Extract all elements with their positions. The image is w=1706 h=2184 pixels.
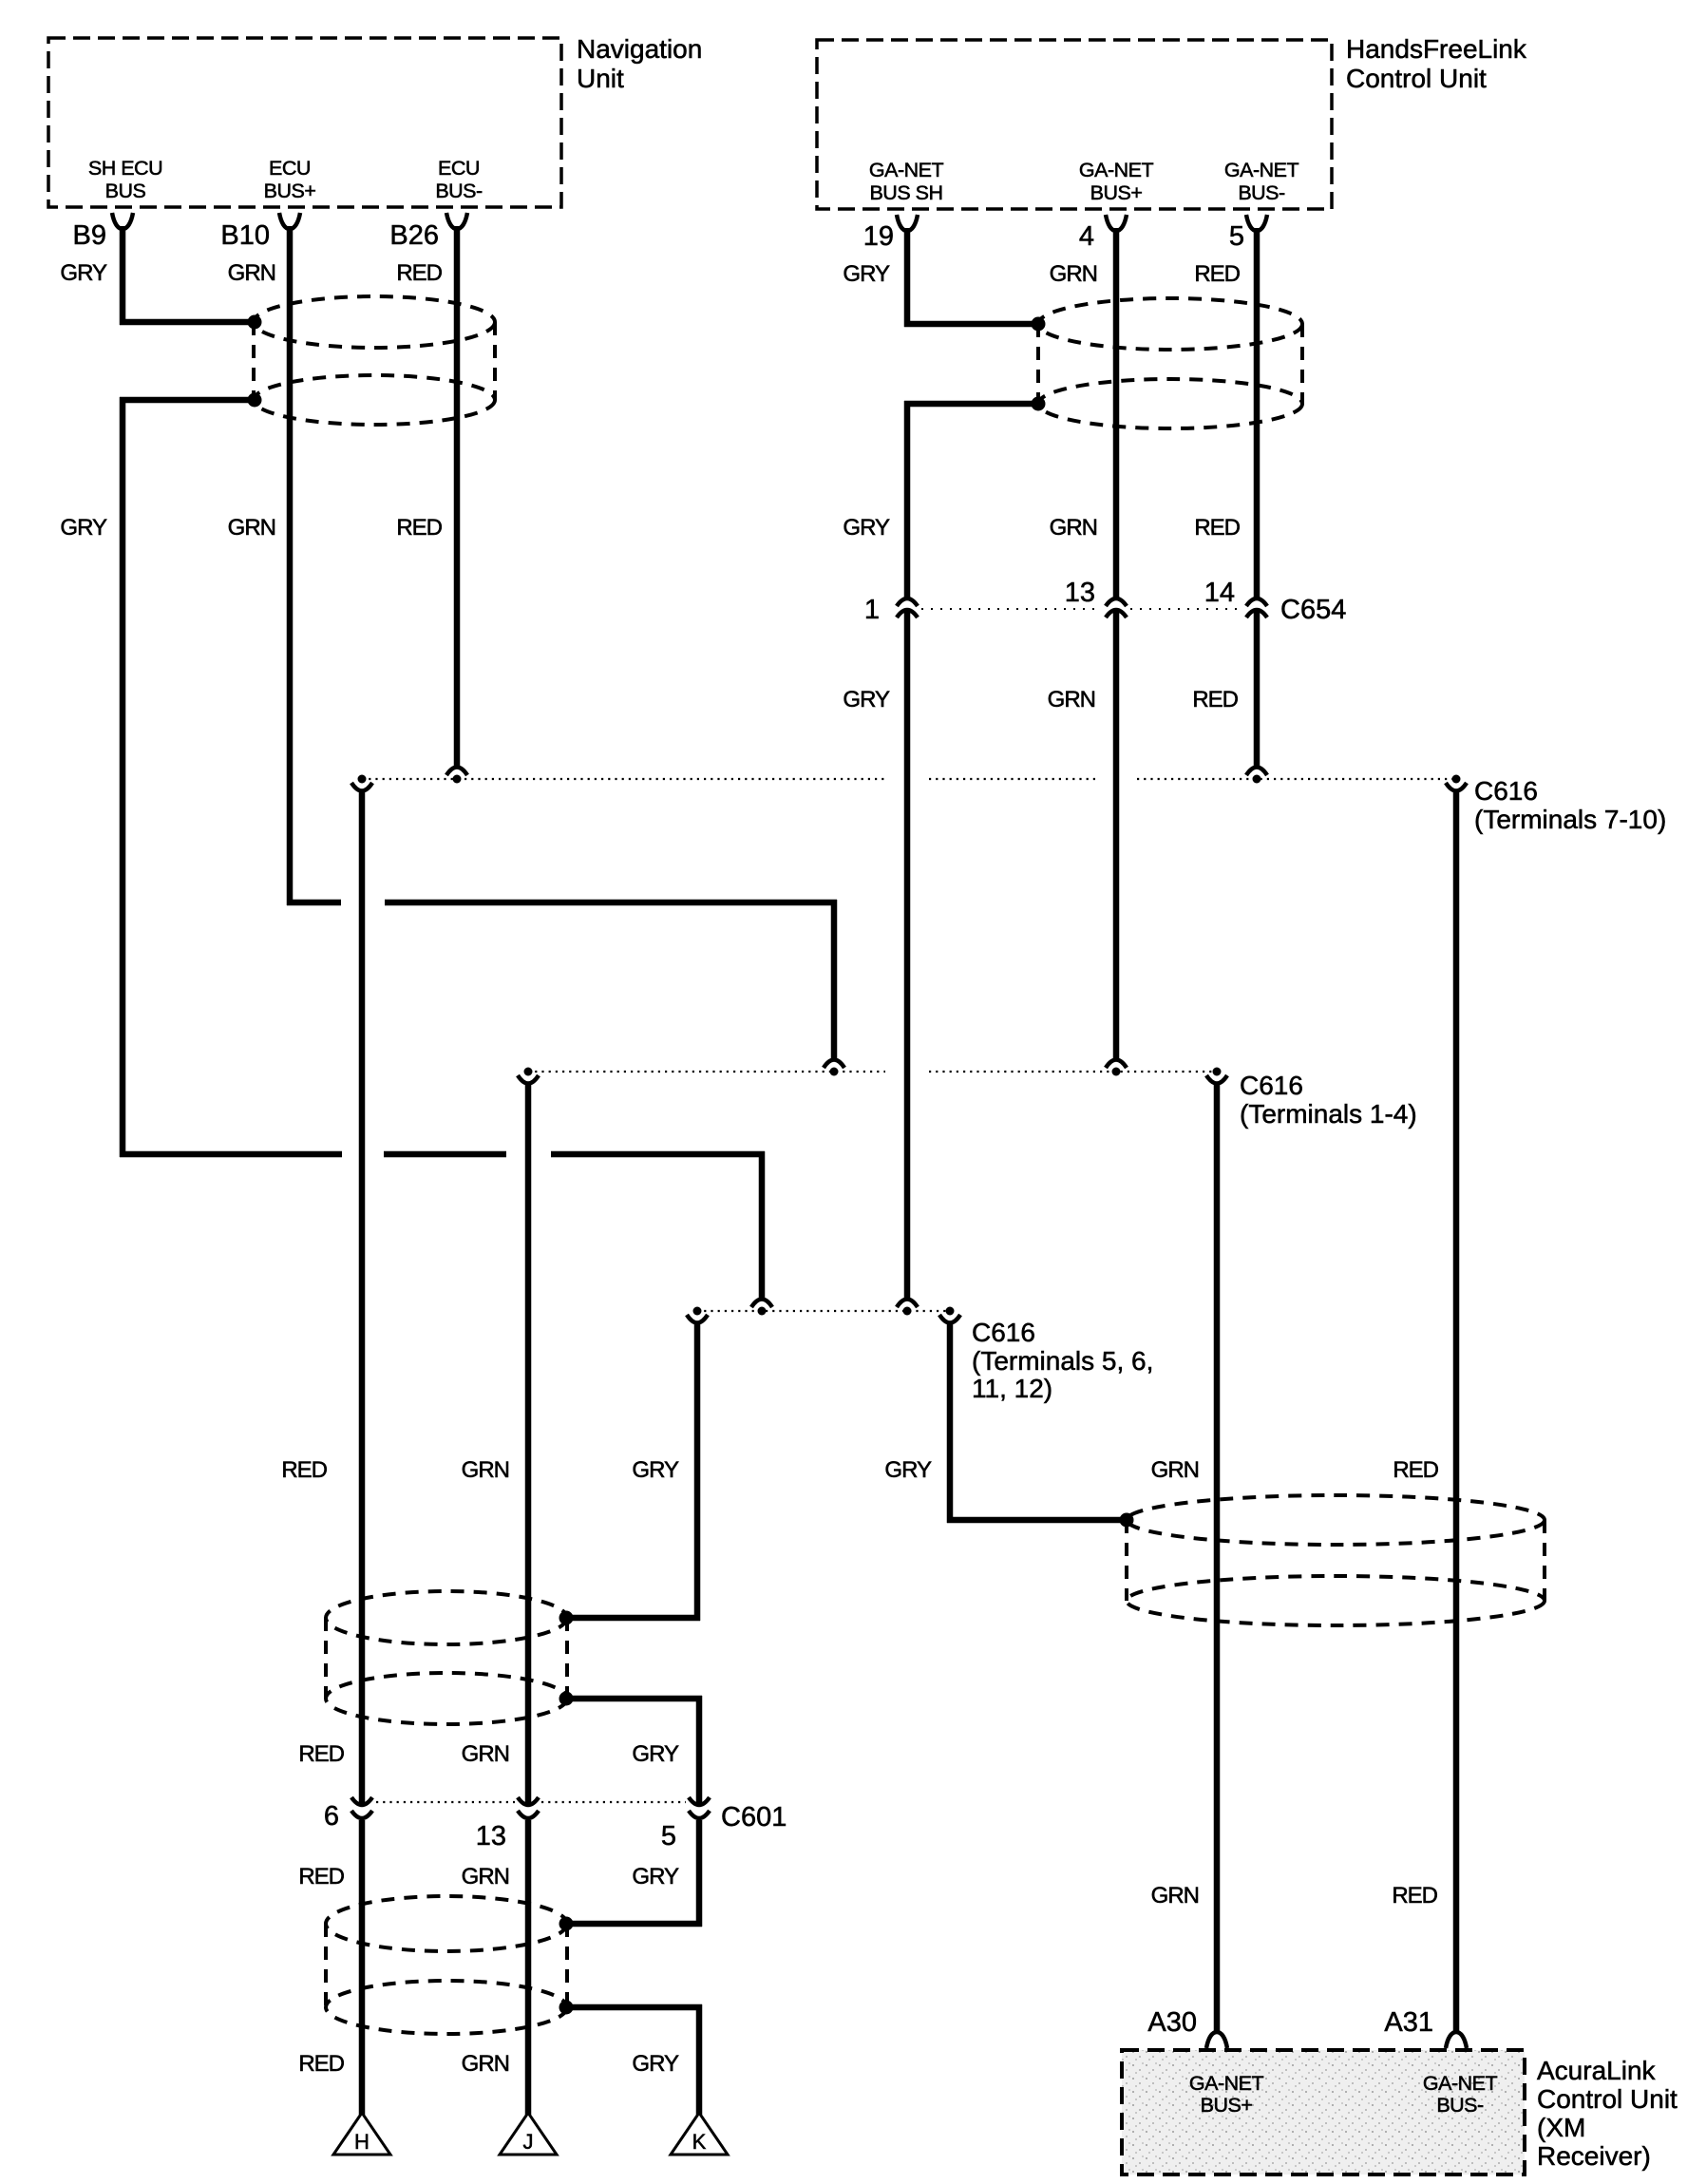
svg-text:ECU: ECU <box>438 157 480 180</box>
pin number labels top boxes <box>73 220 1244 252</box>
svg-text:GRY: GRY <box>632 1864 679 1890</box>
connector C601 labels <box>324 1801 787 1852</box>
node GRY HandsFreeLink end at C616 terminals 5-12 <box>897 1300 918 1316</box>
label C616 terminals 7-10 <box>1474 776 1666 834</box>
svg-text:BUS SH: BUS SH <box>869 181 942 204</box>
junction dot shield HandsFreeLink top <box>1032 317 1046 332</box>
junction dot lower-left lower shield top <box>559 1917 574 1931</box>
AcuraLink Control Unit (XM Receiver) box <box>1122 2050 1678 2175</box>
svg-text:RED: RED <box>1393 1457 1438 1483</box>
svg-text:RED: RED <box>396 515 442 541</box>
connector H triangle <box>333 2113 390 2155</box>
svg-text:GRN: GRN <box>1151 1457 1199 1483</box>
shield (Navigation twisted-pair) <box>254 296 495 425</box>
wire GRN from Navigation B10 down and over to C616 terminals 1-4 line <box>287 226 837 1059</box>
wire colour labels below C601 <box>298 1864 679 1890</box>
wire RED from Navigation B26 down to C616 terminals 7-10 line <box>454 226 461 766</box>
node GRN Navigation end at C616 terminals 1-4 <box>824 1060 844 1076</box>
pin labels A30 A31 <box>1147 2007 1433 2038</box>
svg-text:GRY: GRY <box>60 260 107 286</box>
svg-text:Unit: Unit <box>577 64 624 93</box>
dotted connector line C654 <box>921 608 1242 610</box>
svg-text:ECU: ECU <box>269 157 311 180</box>
svg-text:GRN: GRN <box>228 515 275 541</box>
svg-text:RED: RED <box>281 1457 327 1483</box>
node GRN HandsFreeLink end at C616 terminals 1-4 <box>1106 1060 1127 1076</box>
pin 5 terminal fork at HandsFreeLink box <box>1246 215 1267 231</box>
wire colour labels middle set <box>281 1457 1438 1483</box>
shield (lower-left upper) <box>326 1591 567 1724</box>
svg-text:19: 19 <box>863 221 894 252</box>
svg-text:GRN: GRN <box>1050 261 1097 287</box>
junction dot lower-left upper shield top <box>559 1611 574 1625</box>
svg-text:RED: RED <box>1194 261 1240 287</box>
svg-text:GRN: GRN <box>462 1457 509 1483</box>
svg-text:GRY: GRY <box>632 1741 679 1767</box>
svg-text:GRY: GRY <box>632 1457 679 1483</box>
wire colour labels bottom set <box>298 2051 679 2077</box>
svg-text:13: 13 <box>1065 578 1095 608</box>
wire colour labels above C601 <box>298 1741 679 1767</box>
svg-text:BUS-: BUS- <box>435 180 483 202</box>
svg-text:C616: C616 <box>1474 776 1538 806</box>
svg-text:C616: C616 <box>972 1318 1035 1347</box>
wire GRN from C616 terminals 1-4 right end down to AcuraLink A30 <box>1214 1085 1221 2034</box>
label C616 terminals 5, 6, 11, 12 <box>972 1318 1153 1403</box>
Navigation Unit box <box>48 34 702 207</box>
connector C654 pin 1 inline terminals <box>897 598 918 617</box>
svg-text:B26: B26 <box>389 220 439 251</box>
wire GRN from C616 terminals 1-4 left end down through C601 pin 13 to connector J <box>525 1085 532 2115</box>
node GRY Navigation end at C616 terminals 5-12 <box>751 1300 772 1316</box>
svg-text:GRY: GRY <box>843 515 890 541</box>
svg-text:AcuraLink: AcuraLink <box>1537 2056 1657 2085</box>
svg-text:HandsFreeLink: HandsFreeLink <box>1346 34 1527 64</box>
svg-text:GA-NET: GA-NET <box>1423 2072 1498 2095</box>
svg-text:J: J <box>523 2130 534 2154</box>
pin 4 terminal fork at HandsFreeLink box <box>1106 215 1127 231</box>
svg-text:GRY: GRY <box>60 515 107 541</box>
wire GRY from C616 terminals 5-12 left end jogging through both lower shields and C601 pin 5 to connector K <box>566 1324 702 2115</box>
svg-text:C601: C601 <box>721 1802 787 1833</box>
dotted harness line C616 terminals 5, 6, 11, 12 <box>697 1310 950 1312</box>
svg-text:GRY: GRY <box>884 1457 932 1483</box>
svg-text:GA-NET: GA-NET <box>869 159 944 181</box>
junction dot lower-left lower shield bottom <box>559 2001 574 2015</box>
wire colour labels second set <box>60 515 1240 541</box>
svg-text:Receiver): Receiver) <box>1537 2141 1651 2171</box>
svg-text:GRN: GRN <box>228 260 275 286</box>
svg-text:(XM: (XM <box>1537 2113 1585 2142</box>
dotted harness line C616 terminals 1-4 <box>528 1071 1217 1073</box>
wire GRY from HandsFreeLink pin 19 through C654 down to C616 terminals 5-12 line <box>904 228 1038 1299</box>
wire colour labels upper set <box>60 260 1240 287</box>
svg-text:Control Unit: Control Unit <box>1537 2084 1678 2114</box>
label C616 terminals 1-4 <box>1240 1071 1417 1129</box>
svg-text:H: H <box>354 2130 370 2154</box>
shield (AcuraLink twisted-pair) <box>1127 1495 1545 1625</box>
svg-text:RED: RED <box>1192 687 1238 712</box>
svg-text:4: 4 <box>1079 221 1094 252</box>
junction dot shield Navigation bottom <box>248 393 262 408</box>
wire GRY from C616 terminals 5-12 right end to AcuraLink shield <box>947 1324 1127 1523</box>
svg-text:RED: RED <box>298 2051 344 2077</box>
svg-text:GA-NET: GA-NET <box>1224 159 1299 181</box>
pin A30 terminal fork at AcuraLink box <box>1206 2032 1227 2048</box>
svg-text:RED: RED <box>298 1864 344 1890</box>
junction dot lower-left upper shield bottom <box>559 1692 574 1706</box>
svg-text:K: K <box>692 2130 707 2154</box>
svg-text:GRN: GRN <box>462 2051 509 2077</box>
HandsFreeLink Control Unit box <box>817 34 1527 209</box>
svg-text:RED: RED <box>1194 515 1240 541</box>
connector C654 pin 14 inline terminals <box>1246 598 1267 617</box>
svg-text:GRY: GRY <box>843 261 890 287</box>
svg-text:11, 12): 11, 12) <box>972 1374 1052 1403</box>
node C616 terminals 1-4 right end (wire A30 branch) <box>1206 1068 1227 1084</box>
connector K triangle <box>671 2113 728 2155</box>
wire colour labels above AcuraLink <box>1151 1883 1438 1909</box>
svg-text:GRN: GRN <box>462 1741 509 1767</box>
svg-text:6: 6 <box>324 1801 339 1832</box>
wire RED from C616 terminals 7-10 left end down through C601 pin 6 to connector H <box>359 792 366 2115</box>
pin B26 terminal fork at Navigation box <box>446 213 467 229</box>
svg-text:BUS+: BUS+ <box>264 180 316 202</box>
svg-text:(Terminals 5, 6,: (Terminals 5, 6, <box>972 1346 1153 1376</box>
svg-text:C616: C616 <box>1240 1071 1303 1100</box>
shield (lower-left lower) <box>326 1896 567 2034</box>
svg-text:A31: A31 <box>1384 2007 1433 2038</box>
svg-text:GRN: GRN <box>1050 515 1097 541</box>
pin A31 terminal fork at AcuraLink box <box>1446 2032 1467 2048</box>
svg-text:GRY: GRY <box>843 687 890 712</box>
connector C654 labels <box>864 578 1346 625</box>
node C616 terminals 7-10 left end (wire H branch) <box>351 775 372 791</box>
svg-text:5: 5 <box>1229 221 1244 252</box>
connector C654 pin 13 inline terminals <box>1106 598 1127 617</box>
wire colour labels below C654 <box>843 687 1238 712</box>
svg-text:GRN: GRN <box>1048 687 1095 712</box>
node RED B26 end at C616 terminals 7-10 <box>446 768 467 784</box>
dotted connector line C601 <box>376 1801 686 1803</box>
svg-text:(Terminals 7-10): (Terminals 7-10) <box>1474 805 1666 834</box>
pin 19 terminal fork at HandsFreeLink box <box>897 215 918 231</box>
connector C601 pin 5 inline terminals <box>689 1797 710 1818</box>
svg-text:RED: RED <box>396 260 442 286</box>
svg-text:14: 14 <box>1204 578 1235 608</box>
wire GRY from Navigation B9 to shield and down to C616 terminals 5-12 line <box>120 226 765 1299</box>
junction dot shield HandsFreeLink bottom <box>1032 397 1046 411</box>
svg-text:RED: RED <box>1392 1883 1437 1909</box>
svg-text:13: 13 <box>476 1821 506 1852</box>
svg-text:GRN: GRN <box>1151 1883 1199 1909</box>
pin B9 terminal fork at Navigation box <box>112 213 133 229</box>
node RED HandsFreeLink end at C616 terminals 7-10 <box>1246 768 1267 784</box>
junction dot shield Navigation top <box>248 315 262 330</box>
svg-text:SH ECU: SH ECU <box>88 157 162 180</box>
svg-text:BUS+: BUS+ <box>1090 181 1143 204</box>
connector C601 pin 6 inline terminals <box>351 1797 372 1818</box>
svg-text:(Terminals 1-4): (Terminals 1-4) <box>1240 1099 1417 1129</box>
svg-text:BUS-: BUS- <box>1436 2094 1484 2117</box>
svg-text:BUS-: BUS- <box>1238 181 1285 204</box>
svg-text:GRN: GRN <box>462 1864 509 1890</box>
svg-text:RED: RED <box>298 1741 344 1767</box>
shield (HandsFreeLink twisted-pair) <box>1038 298 1302 428</box>
svg-text:B9: B9 <box>73 220 106 251</box>
wire RED from C616 terminals 7-10 right end down to AcuraLink A31 <box>1453 792 1460 2034</box>
dotted harness line C616 terminals 7-10 <box>362 778 1456 780</box>
pin B10 terminal fork at Navigation box <box>279 213 300 229</box>
svg-text:BUS+: BUS+ <box>1201 2094 1253 2117</box>
node C616 terminals 1-4 left end (wire J branch) <box>518 1068 539 1084</box>
svg-text:5: 5 <box>661 1821 676 1852</box>
svg-text:BUS: BUS <box>105 180 146 202</box>
wire RED from HandsFreeLink pin 5 through C654 down to C616 terminals 7-10 line <box>1254 228 1261 766</box>
svg-text:GRY: GRY <box>632 2051 679 2077</box>
svg-text:GA-NET: GA-NET <box>1189 2072 1264 2095</box>
junction dot AcuraLink shield <box>1120 1513 1134 1528</box>
node C616 terminals 7-10 right end (wire A31 branch) <box>1446 775 1467 791</box>
svg-text:B10: B10 <box>220 220 270 251</box>
svg-text:GA-NET: GA-NET <box>1079 159 1154 181</box>
svg-text:A30: A30 <box>1147 2007 1197 2038</box>
connector J triangle <box>500 2113 557 2155</box>
svg-text:C654: C654 <box>1280 595 1346 625</box>
svg-text:Navigation: Navigation <box>577 34 702 64</box>
svg-text:1: 1 <box>864 595 880 625</box>
node C616 terminals 5-12 left end (wire K branch) <box>687 1307 708 1323</box>
node C616 terminals 5-12 right end (wire to AcuraLink shield) <box>939 1307 960 1323</box>
wire GRN from HandsFreeLink pin 4 through C654 down to C616 terminals 1-4 line <box>1113 228 1120 1059</box>
svg-text:Control Unit: Control Unit <box>1346 64 1487 93</box>
connector C601 pin 13 inline terminals <box>518 1797 539 1818</box>
